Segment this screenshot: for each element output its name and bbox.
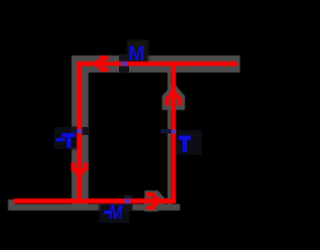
axis navy tick on right line [161, 129, 172, 134]
axis crossing purple blob on left line [77, 129, 82, 133]
label -M minus [104, 211, 111, 214]
label backdrop -T [54, 127, 78, 149]
left arrow on top line [92, 56, 109, 72]
svg-text:M: M [128, 42, 144, 66]
red top segment [78, 62, 239, 67]
label backdrop T [176, 130, 202, 155]
down arrow on left line [71, 163, 88, 180]
label T [179, 136, 191, 153]
right arrow on bottom line [147, 192, 165, 209]
label -T letter T [62, 133, 76, 148]
red bottom segment [14, 199, 176, 204]
label backdrop -M [99, 204, 130, 224]
gray halo of up arrow [162, 83, 185, 110]
label -T minus [56, 138, 65, 141]
gray bottom-line end cap [8, 200, 15, 211]
red right segment [172, 62, 177, 204]
red left segment [77, 62, 82, 204]
axis dark band on bottom line [124, 195, 133, 211]
axis dark band on top line [119, 54, 129, 73]
up arrow on right line [165, 87, 182, 106]
gray right segment [168, 66, 172, 204]
axis crossing purple blob on right line [172, 130, 177, 134]
axis dark band on left line [71, 127, 90, 135]
axis crossing purple blob on top line [122, 62, 128, 67]
axis crossing purple blob on bottom line [125, 199, 131, 204]
label backdrop M [127, 40, 149, 64]
gray halo of right arrow [145, 191, 168, 212]
gray curve [8, 56, 240, 212]
gray bottom segment [8, 204, 180, 211]
red curve [14, 56, 238, 210]
gray left segment [72, 56, 89, 211]
gray top segment [72, 56, 240, 73]
